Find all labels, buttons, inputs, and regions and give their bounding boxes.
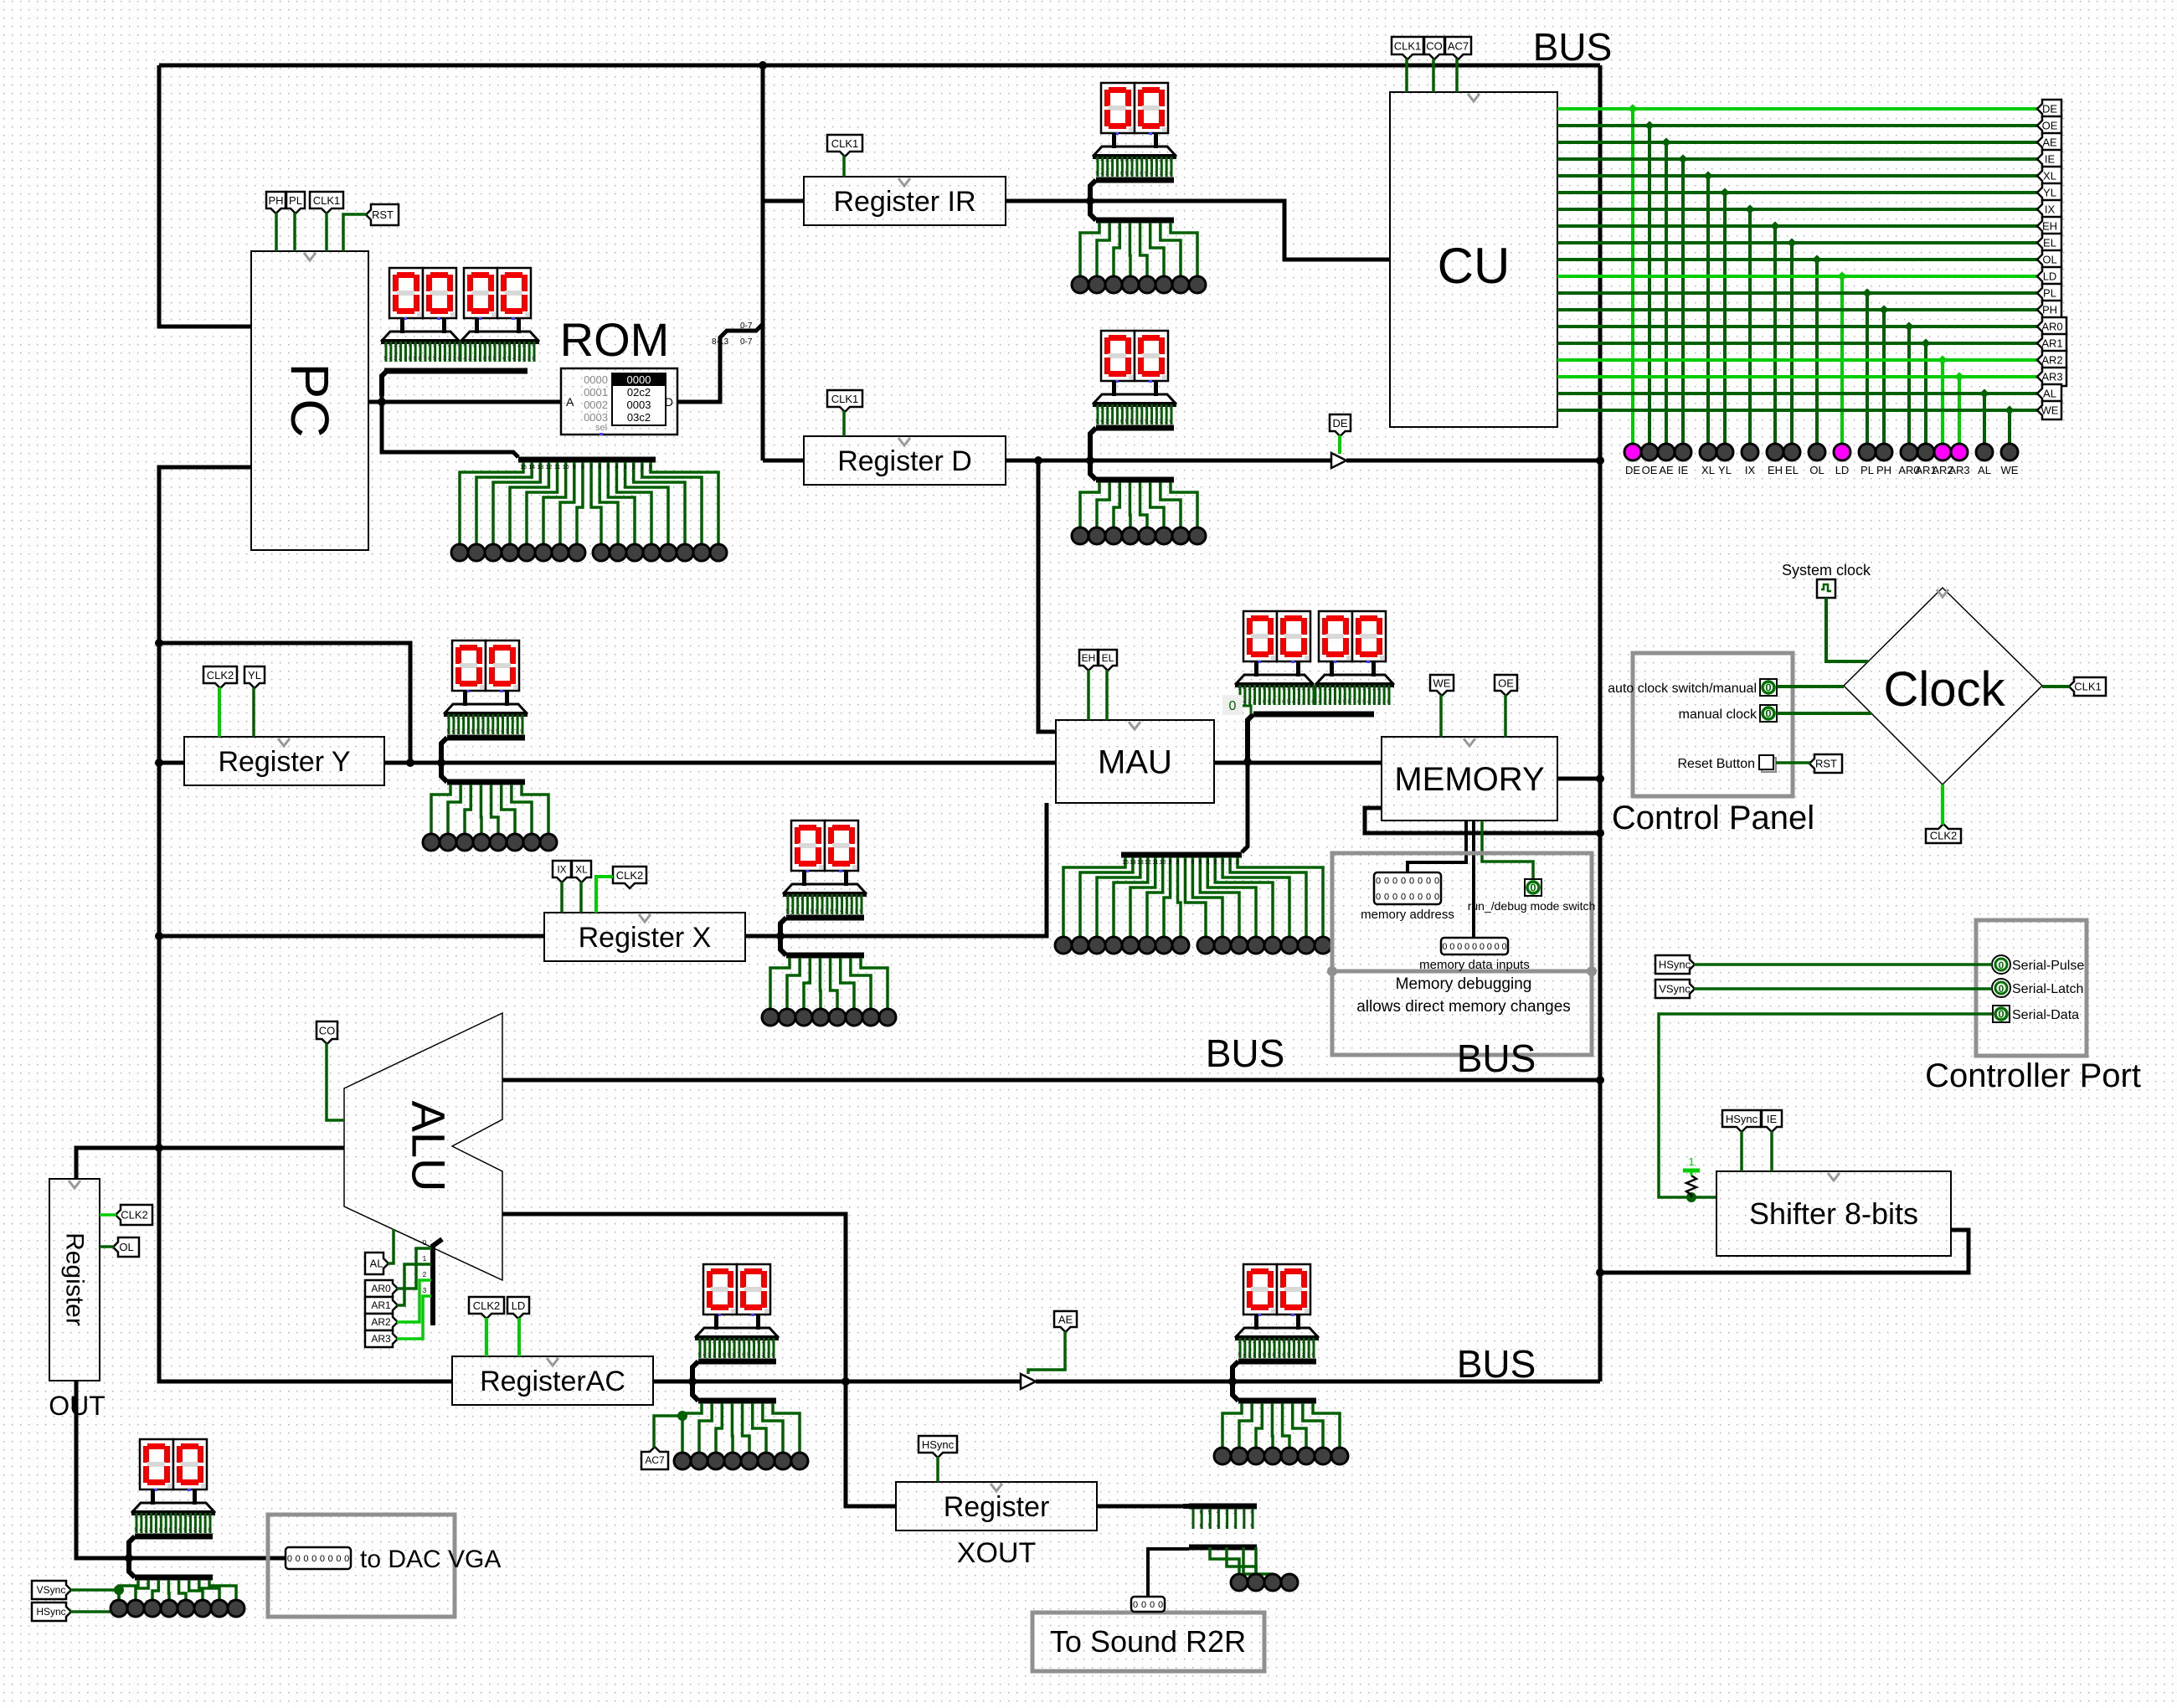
svg-text:Serial-Data: Serial-Data (2012, 1008, 2079, 1022)
svg-text:AE: AE (2042, 136, 2057, 149)
tunnel WE mem (1430, 675, 1454, 696)
display MEMORY LED fan 16 (1055, 855, 1331, 954)
svg-text:HSync: HSync (36, 1606, 65, 1618)
tunnel IX (553, 861, 571, 882)
svg-text:AL: AL (2043, 388, 2056, 400)
svg-text:Control Panel: Control Panel (1612, 800, 1814, 836)
junction resistor (1686, 1192, 1696, 1202)
switch Serial-Pulse (1992, 955, 2084, 974)
svg-text:0: 0 (1765, 682, 1771, 694)
wire PC display drop (380, 396, 384, 402)
label Control Panel (1612, 800, 1814, 836)
wire Serial-Data to shifter (1659, 1014, 1992, 1197)
tunnel AL alu (365, 1253, 389, 1274)
wire CLK1 to CU (1405, 59, 1408, 92)
svg-text:manual clock: manual clock (1679, 707, 1758, 722)
svg-text:WE: WE (1433, 677, 1451, 690)
display PC LED fan 16 (451, 460, 727, 561)
svg-text:0: 0 (1384, 893, 1389, 903)
wire Register X to MAU (745, 803, 1047, 936)
svg-text:15: 15 (1122, 860, 1129, 866)
MAU (1056, 720, 1214, 803)
svg-text:0: 0 (296, 1554, 301, 1564)
wire sound pin up (1148, 1549, 1189, 1597)
wire CLK2 to Y (218, 687, 221, 737)
svg-text:DE: DE (1332, 417, 1347, 430)
svg-text:0: 0 (1133, 1600, 1138, 1610)
svg-text:0: 0 (1472, 942, 1477, 952)
wire to Register IR (763, 199, 804, 203)
register IR (804, 177, 1006, 225)
svg-text:AR0: AR0 (371, 1283, 391, 1294)
svg-text:memory data inputs: memory data inputs (1419, 958, 1530, 972)
switch Serial-Latch (1992, 979, 2083, 997)
svg-text:0-7: 0-7 (740, 337, 753, 347)
tunnel CLK1 CU (1392, 37, 1423, 59)
svg-text:6: 6 (1191, 860, 1194, 866)
svg-text:HSync: HSync (1659, 959, 1691, 971)
wire Clock to CLK2 (1941, 785, 1944, 825)
svg-text:0002: 0002 (584, 399, 608, 411)
svg-text:9: 9 (573, 465, 576, 471)
wire Shifter out to BUS (1600, 1230, 1969, 1273)
tunnel OL out (113, 1237, 139, 1257)
pin memory address (1361, 872, 1454, 922)
svg-text:Register D: Register D (837, 445, 972, 477)
wire MEMORY to memory address (1408, 821, 1466, 872)
tunnel CLK2 Y (203, 666, 237, 688)
register AC (452, 1356, 653, 1405)
svg-text:YL: YL (248, 669, 261, 682)
tunnel CLK2 out (116, 1205, 152, 1225)
junction left vert / Y bus (155, 759, 163, 767)
junction PC display / A line (378, 398, 386, 406)
svg-text:CLK1: CLK1 (313, 194, 341, 207)
wire Register OUT top line (76, 1148, 344, 1179)
display PC 4-digit (381, 268, 539, 396)
svg-text:CO: CO (1426, 40, 1443, 53)
wire MAU to MEMORY (1214, 761, 1382, 765)
wire MEMORY to debug switch (1482, 821, 1533, 879)
tunnel XL (572, 861, 591, 882)
wire BUS right vertical (1598, 65, 1603, 1381)
display X (762, 821, 896, 1026)
svg-text:CLK2: CLK2 (121, 1209, 148, 1222)
svg-text:OL: OL (1809, 464, 1824, 476)
svg-text:0: 0 (1434, 877, 1439, 887)
CU output tunnels (2037, 100, 2066, 419)
svg-text:0: 0 (1495, 942, 1500, 952)
svg-text:0: 0 (1464, 942, 1469, 952)
svg-text:8-13: 8-13 (712, 337, 728, 347)
svg-text:0: 0 (328, 1554, 333, 1564)
svg-text:DE: DE (1625, 464, 1640, 476)
wire reset to RST (1776, 761, 1810, 764)
svg-text:2: 2 (1221, 860, 1224, 866)
svg-text:0: 0 (1229, 699, 1237, 713)
wire Y feed horizontal (159, 643, 410, 763)
svg-text:1: 1 (641, 465, 644, 471)
wire Register OUT to DAC pin (76, 1381, 286, 1558)
svg-text:PL: PL (1860, 464, 1874, 476)
tunnel RST PC (366, 204, 399, 225)
svg-text:CLK2: CLK2 (616, 869, 644, 882)
svg-text:PC: PC (280, 363, 340, 438)
wire CO to CU (1432, 59, 1435, 92)
svg-text:0: 0 (1376, 893, 1381, 903)
svg-text:AC7: AC7 (1448, 40, 1469, 53)
tunnel HSync out (32, 1603, 71, 1621)
tunnel IE shifter (1762, 1110, 1782, 1132)
junction D line / MAU drop (1034, 456, 1042, 465)
junction MEMORY bottom / BUS (1596, 829, 1604, 837)
label To Sound R2R (1050, 1624, 1246, 1659)
tunnel AC7 (641, 1447, 668, 1469)
tunnel AE (1054, 1311, 1077, 1332)
svg-text:OE: OE (2042, 120, 2058, 132)
svg-text:0: 0 (1376, 877, 1381, 887)
wire CLK2 to OUT (100, 1213, 116, 1217)
wire MEMORY out right (1557, 777, 1600, 781)
panel memory debugging (1327, 853, 1597, 1055)
svg-text:AR3: AR3 (1948, 464, 1969, 476)
svg-text:OL: OL (2042, 254, 2056, 266)
ALU (344, 1013, 502, 1280)
svg-text:AC7: AC7 (645, 1454, 665, 1466)
wire PC A line (368, 400, 561, 404)
svg-text:AL: AL (370, 1258, 383, 1270)
wire PL to PC (293, 213, 296, 251)
svg-text:Serial-Pulse: Serial-Pulse (2012, 959, 2084, 973)
svg-text:0: 0 (1999, 983, 2005, 995)
svg-text:0: 0 (336, 1554, 341, 1564)
svg-text:14: 14 (528, 465, 535, 471)
svg-text:0: 0 (1999, 959, 2005, 971)
switch Serial-Data (1993, 1006, 2079, 1022)
button reset (1678, 755, 1777, 772)
wire Register D to MAU (1038, 460, 1056, 732)
svg-text:0: 0 (1426, 877, 1431, 887)
svg-text:CO: CO (319, 1025, 336, 1037)
MEMORY (1382, 737, 1557, 821)
panel to sound (1032, 1613, 1264, 1671)
label BUS bottom right (1457, 1037, 1536, 1080)
svg-text:CLK1: CLK1 (2074, 681, 2102, 693)
tunnel HSync xout (919, 1436, 957, 1458)
junction top bus / IR feed (759, 61, 767, 69)
svg-text:HSync: HSync (922, 1438, 955, 1451)
label BUS middle (1206, 1031, 1285, 1075)
wire CLK1 to D (842, 411, 846, 436)
shifter (1716, 1171, 1951, 1256)
svg-text:0: 0 (1480, 942, 1485, 952)
svg-text:YL: YL (2043, 187, 2056, 199)
junction ALU bottom / AC bus (841, 1377, 850, 1386)
buffer DE (1331, 453, 1346, 468)
control unit CU (1390, 92, 1557, 427)
resistor R1 (1686, 1176, 1696, 1197)
svg-text:to DAC VGA: to DAC VGA (360, 1546, 501, 1573)
svg-text:IX: IX (1745, 464, 1756, 476)
wire MEM fan vertical (1242, 762, 1248, 852)
svg-text:auto clock switch/manual: auto clock switch/manual (1608, 682, 1757, 696)
wire manual to Clock (1777, 712, 1871, 715)
svg-text:0: 0 (303, 1554, 308, 1564)
CU output LEDs (1624, 444, 2019, 476)
svg-text:0: 0 (311, 1554, 317, 1564)
svg-text:LD: LD (2043, 270, 2057, 283)
svg-text:PH: PH (1876, 464, 1891, 476)
component system clock (1817, 579, 1835, 598)
label XOUT (957, 1537, 1036, 1569)
svg-text:LD: LD (512, 1299, 526, 1312)
wire CLK1 to IR (842, 156, 846, 177)
svg-text:CLK2: CLK2 (207, 669, 234, 682)
junction Y feed / Y bus (406, 759, 414, 767)
svg-text:Serial-Latch: Serial-Latch (2012, 982, 2083, 996)
svg-text:XOUT: XOUT (957, 1537, 1036, 1569)
svg-text:1: 1 (1688, 1155, 1694, 1168)
wire IE to shifter (1770, 1131, 1773, 1171)
svg-text:DE: DE (2042, 103, 2057, 116)
label bus split 0-7 (740, 322, 753, 331)
svg-text:BUS: BUS (1457, 1037, 1536, 1080)
svg-text:0: 0 (1418, 893, 1423, 903)
junction MEM display / bus (1243, 758, 1252, 766)
wire LD to AC (517, 1318, 521, 1356)
svg-text:02c2: 02c2 (627, 386, 651, 399)
wire XL to X (579, 882, 583, 913)
tunnel CO CU (1424, 37, 1444, 59)
svg-text:3: 3 (624, 465, 627, 471)
svg-text:EL: EL (1102, 652, 1114, 664)
tunnel CLK1 clock (2069, 677, 2106, 696)
wire AC7 to CU (1455, 59, 1459, 92)
svg-text:0: 0 (1392, 893, 1397, 903)
svg-text:0: 0 (1501, 942, 1506, 952)
svg-text:CLK1: CLK1 (831, 137, 859, 150)
svg-text:AR3: AR3 (2041, 371, 2062, 383)
junction OUT line / left vertical (155, 1144, 163, 1152)
wire AE to buffer (1028, 1331, 1065, 1374)
svg-text:OE: OE (1642, 464, 1658, 476)
svg-text:BUS: BUS (1457, 1342, 1536, 1386)
svg-text:0: 0 (1150, 1600, 1155, 1610)
wire DE to buffer (1338, 435, 1341, 454)
register XOUT (896, 1482, 1097, 1531)
svg-text:0: 0 (1409, 877, 1414, 887)
junction Shifter out / BUS (1596, 1268, 1604, 1277)
wire ROM D to splitters (677, 324, 763, 402)
svg-text:OE: OE (1498, 677, 1514, 690)
svg-text:10: 10 (563, 465, 569, 471)
wire Clock to CLK1 (2042, 685, 2070, 688)
wire HSync to shifter (1740, 1131, 1743, 1171)
svg-text:2: 2 (423, 1271, 427, 1278)
tunnel CLK1 D (827, 390, 862, 412)
svg-text:8: 8 (1176, 860, 1180, 866)
svg-text:System clock: System clock (1782, 562, 1871, 579)
wire IR/D feed vertical (761, 65, 765, 460)
buffer AE (1021, 1374, 1036, 1389)
register OUT (49, 1179, 100, 1381)
tunnel EL (1099, 650, 1117, 671)
wire OE to MEMORY (1504, 695, 1507, 737)
svg-text:WE: WE (2041, 404, 2059, 417)
svg-text:0: 0 (287, 1554, 292, 1564)
display XOUT (1214, 1264, 1348, 1464)
svg-text:AR2: AR2 (371, 1316, 391, 1328)
svg-text:0: 0 (1487, 942, 1492, 952)
svg-text:0: 0 (1442, 942, 1447, 952)
svg-text:IX: IX (557, 864, 566, 876)
label bus split 8-13 (712, 337, 728, 347)
svg-text:7: 7 (589, 465, 593, 471)
wire MEMORY out bottom (1365, 808, 1600, 833)
wire CLK2 to AC (485, 1318, 488, 1356)
label System clock (1782, 562, 1871, 579)
svg-text:Clock: Clock (1883, 662, 2005, 717)
svg-text:CLK1: CLK1 (831, 393, 859, 405)
svg-text:0003: 0003 (627, 399, 651, 411)
pin sound (1131, 1597, 1165, 1612)
tunnel CLK2 AC (469, 1297, 504, 1319)
svg-text:PH: PH (2042, 304, 2057, 316)
svg-text:Shifter 8-bits: Shifter 8-bits (1749, 1196, 1918, 1231)
pin to DAC (286, 1547, 351, 1569)
tunnel HSync shifter (1722, 1110, 1761, 1132)
svg-text:D: D (665, 395, 673, 409)
svg-text:14: 14 (1130, 860, 1136, 866)
label bus split 0-7 b (740, 337, 753, 347)
svg-text:EH: EH (1082, 652, 1096, 664)
display D (1072, 331, 1206, 544)
wire EH to MAU (1087, 670, 1090, 720)
svg-text:RegisterAC: RegisterAC (480, 1366, 625, 1397)
wire BUS top horizontal (159, 64, 1600, 68)
svg-text:IE: IE (1767, 1113, 1778, 1125)
svg-text:0001: 0001 (584, 386, 608, 399)
svg-text:Register: Register (944, 1491, 1050, 1523)
wire ALU out top to BUS (502, 1078, 1600, 1083)
wire AC7 up (654, 1411, 687, 1448)
svg-text:EL: EL (1785, 464, 1799, 476)
tunnel YL (244, 666, 265, 688)
svg-text:0: 0 (1141, 1600, 1146, 1610)
tunnel PH (266, 192, 286, 213)
svg-text:CLK2: CLK2 (473, 1299, 501, 1312)
svg-text:AL: AL (1978, 464, 1991, 476)
svg-text:CLK2: CLK2 (1930, 830, 1958, 842)
svg-text:4: 4 (1206, 860, 1209, 866)
wire AC bus to buffer (653, 1380, 1021, 1384)
ALU select connector (433, 1239, 442, 1325)
wire Register IR to CU (1006, 201, 1390, 260)
wire CO to ALU (327, 1043, 344, 1120)
wire A to ROM fan (382, 402, 518, 457)
display IR (1072, 83, 1206, 293)
svg-text:0: 0 (1426, 893, 1431, 903)
panel to DAC VGA (268, 1515, 455, 1617)
panel controller port (1976, 920, 2087, 1056)
svg-text:0: 0 (1236, 860, 1239, 866)
svg-text:Memory debugging: Memory debugging (1396, 975, 1532, 993)
svg-text:10: 10 (1160, 860, 1166, 866)
svg-text:0: 0 (1401, 893, 1406, 903)
svg-text:run_/debug mode switch: run_/debug mode switch (1468, 899, 1596, 913)
svg-text:VSync: VSync (1659, 983, 1691, 995)
svg-text:AE: AE (1058, 1314, 1073, 1326)
junction left vert / Y feed (155, 639, 163, 647)
svg-text:0000: 0000 (627, 373, 651, 386)
svg-text:allows direct memory changes: allows direct memory changes (1356, 998, 1571, 1016)
svg-text:sel: sel (595, 423, 607, 433)
svg-text:0: 0 (1409, 893, 1414, 903)
svg-text:IX: IX (2045, 203, 2056, 216)
svg-text:YL: YL (1718, 464, 1732, 476)
wire PC left lower connection (159, 467, 652, 1381)
svg-text:BUS: BUS (1206, 1031, 1285, 1075)
wire YL to Y (252, 687, 255, 737)
display XOUT fan to sound (1183, 1506, 1298, 1591)
svg-text:0-7: 0-7 (740, 322, 753, 331)
wire HSync to XOUT (936, 1457, 939, 1482)
svg-text:0: 0 (1384, 877, 1389, 887)
svg-text:AR1: AR1 (371, 1299, 391, 1311)
tunnel PL (286, 192, 305, 213)
svg-text:Register: Register (61, 1232, 89, 1326)
tunnel CLK1 IR (827, 135, 862, 157)
svg-text:PL: PL (289, 194, 302, 207)
wire WE to MEMORY (1439, 695, 1443, 737)
svg-text:0003: 0003 (584, 411, 608, 424)
svg-text:0: 0 (1401, 877, 1406, 887)
svg-text:Register Y: Register Y (218, 746, 350, 778)
junction left vert / X bus (155, 932, 163, 940)
svg-text:13: 13 (1137, 860, 1144, 866)
svg-text:1: 1 (423, 1255, 427, 1263)
display MEMORY 4-digit (1235, 611, 1394, 762)
label to DAC VGA (360, 1546, 501, 1573)
svg-text:0: 0 (1449, 942, 1454, 952)
tunnel CLK1 PC (310, 192, 343, 213)
display AC (674, 1264, 808, 1469)
wire Register D line (1006, 459, 1331, 463)
svg-text:HSync: HSync (1726, 1113, 1758, 1125)
svg-text:MAU: MAU (1098, 744, 1172, 781)
wire RST to PC (343, 214, 367, 251)
svg-text:PL: PL (2043, 287, 2056, 300)
svg-text:8: 8 (581, 465, 584, 471)
register X (544, 913, 745, 961)
constant 0 mem display (1222, 695, 1251, 715)
svg-text:0000: 0000 (584, 373, 608, 386)
svg-text:6: 6 (598, 465, 601, 471)
label OUT (49, 1391, 106, 1421)
tunnel LD AC (507, 1297, 529, 1319)
svg-text:1: 1 (1228, 860, 1232, 866)
tunnels AR0-AR3 (365, 1239, 431, 1347)
svg-text:IE: IE (2045, 153, 2056, 166)
svg-text:15: 15 (520, 465, 527, 471)
svg-text:OUT: OUT (49, 1391, 106, 1421)
svg-text:ALU: ALU (403, 1101, 455, 1192)
wire DE buffer to BUS (1346, 459, 1600, 463)
tunnel DE (1330, 414, 1351, 436)
svg-text:IE: IE (1678, 464, 1689, 476)
svg-text:0: 0 (1434, 893, 1439, 903)
label Controller Port (1925, 1057, 2141, 1094)
